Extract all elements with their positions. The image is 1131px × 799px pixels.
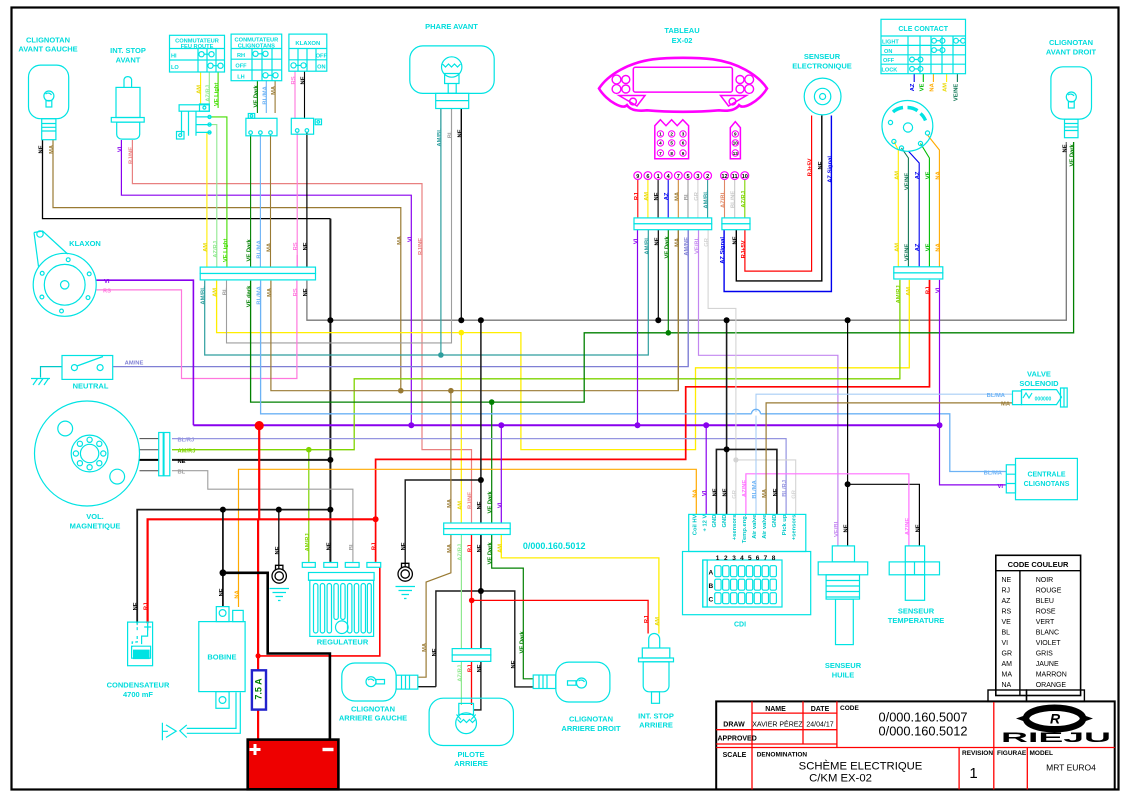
svg-text:VI: VI: [634, 238, 640, 244]
svg-text:AZ/RJ: AZ/RJ: [741, 191, 747, 208]
int stop avant: [110, 46, 146, 139]
wire neutral ground stub: [41, 367, 63, 378]
svg-text:ROUGE: ROUGE: [1036, 588, 1062, 595]
junction dots MA brown: [398, 388, 454, 394]
svg-text:NE: NE: [39, 145, 45, 153]
svg-text:RS: RS: [103, 288, 111, 294]
svg-text:CODE: CODE: [840, 705, 859, 712]
wire AZ key connector: [909, 151, 920, 266]
cle contact key connector: [882, 101, 933, 152]
wire cle table stub NA: [932, 74, 934, 82]
svg-text:AM/BL: AM/BL: [644, 236, 650, 255]
svg-text:NA: NA: [235, 589, 241, 598]
svg-text:RH: RH: [237, 53, 245, 59]
wire RJ int stop arriere: [472, 600, 648, 633]
svg-text:MA: MA: [422, 642, 428, 652]
wire VE key connector: [921, 144, 930, 267]
svg-text:AZ/NE: AZ/NE: [742, 480, 748, 498]
svg-text:RS: RS: [1002, 609, 1012, 616]
svg-text:NE: NE: [915, 524, 921, 532]
junction dot red regulateur: [256, 653, 261, 658]
svg-text:AM: AM: [644, 192, 650, 201]
wire MA clignotans table stub: [274, 81, 276, 113]
svg-text:CODE COULEUR: CODE COULEUR: [1008, 560, 1069, 569]
wire RS klaxon: [96, 281, 297, 379]
wire MA switch-bar: [270, 134, 272, 267]
wire MA brown bus y390: [271, 230, 678, 391]
wire red regulateur loop: [258, 568, 380, 656]
wire cle table stub VE/NE: [956, 74, 958, 82]
klaxon horn: [33, 231, 101, 316]
junction dot NE rear y591: [478, 588, 484, 594]
svg-text:BL/MA: BL/MA: [752, 479, 758, 498]
svg-text:BOBINE: BOBINE: [207, 653, 236, 662]
svg-text:CLIGNOTAN: CLIGNOTAN: [569, 715, 613, 724]
wire VI int stop avant: [121, 140, 411, 425]
wire BL/MA valve solenoid: [756, 394, 1013, 514]
clignotan avant droit: [1046, 38, 1097, 138]
svg-text:NAME: NAME: [765, 706, 786, 713]
wire NE thick vertical x330: [329, 219, 331, 562]
ground symbol 2: [396, 587, 416, 599]
bobine: [199, 607, 245, 709]
svg-text:0/000.160.5012: 0/000.160.5012: [879, 724, 968, 739]
wire RJ red main feed: [376, 280, 930, 562]
pilote arriere connector bar: [452, 649, 491, 662]
svg-text:4700 mF: 4700 mF: [123, 690, 153, 699]
wire NE CDI from bus: [726, 320, 728, 514]
svg-text:ARRIERE: ARRIERE: [639, 721, 673, 730]
svg-text:RJ/NE: RJ/NE: [128, 147, 134, 164]
svg-text:GND: GND: [772, 515, 778, 528]
wire GR tableau to CDI: [708, 230, 736, 514]
svg-text:8: 8: [670, 151, 673, 156]
wire NE eyelet2 branch: [405, 480, 481, 567]
wire NA key connector: [928, 135, 940, 267]
svg-text:INT. STOP: INT. STOP: [638, 712, 674, 721]
svg-text:PILOTE: PILOTE: [457, 750, 484, 759]
svg-text:KLAXON: KLAXON: [69, 239, 101, 248]
svg-text:1: 1: [659, 132, 662, 137]
phare avant: [410, 22, 494, 109]
RIEJU logo: [1001, 708, 1111, 745]
svg-text:BL: BL: [684, 192, 690, 200]
switch clignotans component: [246, 114, 277, 136]
svg-text:+sensors: +sensors: [732, 515, 738, 541]
svg-text:VE: VE: [925, 171, 931, 179]
wire VE dark clignotans table stub: [256, 81, 258, 113]
svg-text:AVANT GAUCHE: AVANT GAUCHE: [18, 45, 77, 54]
svg-text:DENOMINATION: DENOMINATION: [757, 752, 808, 759]
clignotan avant gauche: [18, 36, 77, 140]
junction dot GR: [733, 457, 738, 462]
wire red battery feed: [257, 519, 259, 670]
wire NE vol mag bus: [172, 459, 330, 461]
svg-text:1: 1: [716, 555, 720, 562]
svg-text:Air valve: Air valve: [762, 514, 768, 539]
svg-text:GR: GR: [694, 191, 700, 201]
svg-text:SENSEUR: SENSEUR: [825, 661, 862, 670]
wire AM feu route table stub: [200, 72, 202, 105]
wire NA orange bobine-CDI: [239, 469, 697, 607]
svg-text:VIOLET: VIOLET: [1036, 640, 1062, 647]
wire NE tableau-senseur: [736, 116, 822, 281]
svg-text:CLIGNOTAN: CLIGNOTAN: [26, 36, 70, 45]
svg-text:BL/MA: BL/MA: [262, 85, 268, 104]
svg-text:NE: NE: [401, 542, 407, 550]
junction dot VE dark tableau: [666, 330, 672, 336]
svg-text:CLIGNOTAN: CLIGNOTAN: [1049, 38, 1093, 47]
junction dot NE senseur temp: [845, 481, 851, 487]
table conmutateur feu route: [170, 35, 225, 72]
wire labels vertical: [39, 76, 1076, 682]
wire NE gray bus drop x657: [657, 230, 659, 320]
svg-text:KLAXON: KLAXON: [295, 41, 320, 47]
clignotan arriere gauche: [339, 663, 418, 723]
svg-text:BL/MA: BL/MA: [987, 393, 1006, 399]
wire tableau pin MA: [677, 180, 679, 218]
wire RJ/NE int stop avant: [132, 140, 471, 523]
int stop arriere: [638, 634, 674, 730]
vol mag connector: [159, 433, 170, 476]
wire cle table stub AZ: [913, 74, 915, 82]
svg-text:VE Light: VE Light: [214, 83, 220, 107]
svg-text:3: 3: [732, 555, 736, 562]
svg-text:VE: VE: [919, 83, 925, 91]
junction dot NE CDI: [724, 446, 730, 452]
CDI: [683, 514, 811, 628]
tableau pin number circles: [634, 172, 749, 180]
svg-text:NE: NE: [178, 459, 186, 465]
svg-text:AZ: AZ: [1002, 598, 1012, 605]
svg-text:AZ/RJ: AZ/RJ: [457, 665, 463, 682]
svg-text:4: 4: [659, 141, 662, 146]
wire AM/BL phare drop: [440, 109, 442, 356]
svg-text:SOLENOID: SOLENOID: [1019, 379, 1059, 388]
svg-text:CENTRALE: CENTRALE: [1027, 472, 1065, 479]
svg-text:VE Dark: VE Dark: [519, 631, 525, 654]
svg-text:VE dark: VE dark: [247, 285, 253, 307]
wire VI cle-centrale: [940, 280, 1007, 485]
svg-text:VE Dark: VE Dark: [1070, 144, 1076, 167]
svg-text:VE/BL: VE/BL: [834, 519, 840, 537]
svg-text:RJ+5V: RJ+5V: [741, 240, 747, 258]
pilote arriere: [429, 698, 513, 768]
svg-text:NE: NE: [732, 236, 738, 244]
svg-text:VI: VI: [497, 502, 503, 508]
svg-text:AM/RJ: AM/RJ: [305, 533, 311, 551]
svg-text:MA: MA: [397, 235, 403, 245]
svg-text:NE: NE: [477, 544, 483, 552]
svg-text:6: 6: [756, 555, 760, 562]
svg-text:ROSE: ROSE: [1036, 609, 1056, 616]
svg-text:AM/RJ: AM/RJ: [896, 285, 902, 303]
senseur temperature: [888, 546, 945, 625]
svg-text:NE: NE: [723, 488, 729, 496]
svg-text:BLANC: BLANC: [1036, 630, 1059, 637]
tableau connector single: [730, 122, 740, 159]
senseur electronique: [792, 52, 852, 115]
wire NE eyelet1: [278, 510, 280, 569]
connector bar middle: [444, 523, 511, 535]
svg-text:AZ: AZ: [664, 192, 670, 200]
table klaxon: [289, 34, 328, 71]
svg-text:BL: BL: [448, 130, 454, 138]
svg-text:GND: GND: [722, 515, 728, 528]
svg-text:RJ+5V: RJ+5V: [808, 158, 814, 176]
svg-text:NE: NE: [773, 488, 779, 496]
svg-text:NEUTRAL: NEUTRAL: [73, 382, 109, 391]
wire AM drop to big bar: [460, 333, 462, 523]
svg-text:CLIGNOTANS: CLIGNOTANS: [1024, 481, 1070, 488]
svg-text:NE: NE: [844, 524, 850, 532]
wire NE switch-bar: [306, 132, 308, 267]
svg-text:RS: RS: [293, 242, 299, 250]
neutral switch: [62, 356, 113, 391]
svg-text:AM: AM: [894, 243, 900, 252]
svg-text:3: 3: [696, 174, 699, 180]
svg-text:SCHÈME ELECTRIQUE: SCHÈME ELECTRIQUE: [799, 760, 923, 773]
svg-text:MA: MA: [762, 488, 768, 498]
wire tableau pin AZ/RJ: [744, 180, 746, 218]
svg-text:AM: AM: [197, 85, 203, 94]
svg-text:VE Dark: VE Dark: [488, 491, 494, 514]
svg-text:JAUNE: JAUNE: [1036, 661, 1059, 668]
svg-text:+sensors: +sensors: [792, 515, 798, 541]
svg-text:+ 12 V: + 12 V: [702, 514, 708, 531]
svg-text:BLEU: BLEU: [1036, 598, 1054, 605]
wire VI pilote drop: [500, 425, 502, 523]
svg-text:AZ/NE: AZ/NE: [905, 518, 911, 536]
wire VE Light feu route table stub: [217, 72, 219, 108]
svg-text:NE: NE: [654, 237, 660, 245]
svg-text:CDI: CDI: [734, 622, 746, 629]
clignotan arriere droit: [533, 662, 621, 733]
wire AM/RJ regulateur drop: [308, 450, 310, 562]
tableau connector 3x3: [655, 120, 689, 159]
svg-text:12: 12: [721, 174, 727, 180]
svg-text:VE: VE: [925, 243, 931, 251]
wire NE CDI U loop: [716, 449, 777, 514]
svg-text:4: 4: [740, 555, 744, 562]
svg-text:GRIS: GRIS: [1036, 651, 1053, 658]
svg-text:AZ Signal: AZ Signal: [720, 237, 726, 264]
svg-text:GR: GR: [732, 489, 738, 499]
svg-text:MA: MA: [1002, 672, 1013, 679]
wire NE rear clignotans run: [436, 591, 533, 687]
svg-text:NA: NA: [935, 170, 941, 179]
wire VE light switch to bar: [211, 117, 227, 267]
tableau pin numbers: [636, 174, 748, 180]
svg-text:9: 9: [734, 132, 737, 137]
svg-text:Air valve: Air valve: [752, 514, 758, 539]
svg-text:7: 7: [677, 174, 680, 180]
svg-text:13: 13: [733, 151, 739, 156]
wire RS switch-bar: [296, 132, 298, 267]
wire GR branch +sensors: [736, 460, 796, 515]
svg-text:VE Dark: VE Dark: [488, 542, 494, 565]
svg-text:VI: VI: [1002, 640, 1009, 647]
svg-text:NE: NE: [303, 288, 309, 296]
svg-text:2: 2: [706, 174, 709, 180]
junction dot AM yellow: [459, 330, 465, 336]
wire cle table stub VE: [922, 74, 924, 82]
svg-text:NE: NE: [712, 488, 718, 496]
svg-text:7: 7: [659, 151, 662, 156]
svg-text:VE Dark: VE Dark: [664, 236, 670, 259]
junction dot VE dark lower: [489, 399, 495, 405]
wire NE pilote mid: [480, 535, 482, 592]
svg-text:RJ: RJ: [1002, 588, 1011, 595]
svg-text:MA: MA: [447, 543, 453, 553]
svg-text:AVANT: AVANT: [116, 56, 141, 65]
svg-text:AZ: AZ: [910, 83, 916, 91]
junction dot RJ rear: [469, 598, 475, 604]
svg-text:LOCK: LOCK: [882, 68, 898, 74]
svg-text:AM/NE: AM/NE: [684, 237, 690, 256]
connector bar left: [200, 267, 315, 280]
svg-text:MA: MA: [49, 144, 55, 154]
wire AM key connector: [894, 142, 898, 267]
svg-text:NA: NA: [935, 242, 941, 251]
valve solenoid: [1013, 370, 1068, 408]
code couleur table: [996, 555, 1081, 695]
wire tableau pin AM/BL: [707, 180, 709, 218]
svg-text:PHARE AVANT: PHARE AVANT: [425, 22, 478, 31]
svg-text:Coil HV: Coil HV: [693, 514, 699, 535]
wire VI tableau drop: [637, 230, 639, 425]
CDI pin grid cells: [715, 566, 777, 604]
svg-text:VE Dark: VE Dark: [247, 239, 253, 262]
wire NE senseur temperature: [848, 484, 920, 546]
svg-text:BL/MA: BL/MA: [984, 470, 1003, 476]
svg-text:0/000.160.5007: 0/000.160.5007: [879, 710, 968, 725]
svg-text:GR: GR: [792, 489, 798, 499]
svg-text:ARRIERE: ARRIERE: [454, 759, 488, 768]
svg-text:7: 7: [764, 555, 768, 562]
svg-text:5: 5: [670, 141, 673, 146]
wire NE clignotan arr gauche stub: [418, 686, 436, 688]
svg-text:DRAW: DRAW: [723, 722, 745, 729]
wire RJ+5V: [745, 116, 812, 272]
wire VE dark tableau drop: [667, 230, 669, 333]
wire tableau pin NE: [657, 180, 659, 218]
svg-text:VE/NE: VE/NE: [904, 173, 910, 191]
wire NE klaxon table stub: [304, 71, 306, 119]
svg-text:AM/BL: AM/BL: [201, 286, 207, 305]
wire VE dark bus: [251, 142, 1074, 402]
svg-text:ORANGE: ORANGE: [1036, 682, 1067, 689]
wire NE rear lights vertical: [480, 320, 482, 648]
svg-text:2: 2: [724, 555, 728, 562]
wire red start vertical: [258, 426, 260, 520]
svg-text:10: 10: [742, 174, 748, 180]
CDI pin labels: [693, 514, 798, 543]
svg-text:RS: RS: [291, 76, 297, 84]
svg-text:RJ: RJ: [372, 543, 378, 550]
wire AM/RJ green bus: [172, 280, 900, 450]
svg-text:NE: NE: [275, 546, 281, 554]
svg-text:RJ: RJ: [468, 545, 474, 552]
svg-text:9: 9: [636, 174, 639, 180]
svg-text:SENSEUR: SENSEUR: [804, 52, 841, 61]
table cle contact: [881, 19, 966, 73]
wire tableau pin RJ: [637, 180, 639, 218]
svg-text:CONDENSATEUR: CONDENSATEUR: [107, 681, 170, 690]
svg-text:ON: ON: [884, 49, 892, 55]
svg-text:24/04/17: 24/04/17: [806, 722, 833, 729]
svg-text:VE Dark: VE Dark: [253, 85, 259, 108]
wire MA clignotan arr gauche: [418, 391, 451, 678]
svg-text:SENSEUR: SENSEUR: [898, 607, 935, 616]
svg-text:Pick up: Pick up: [782, 514, 788, 535]
svg-text:C: C: [709, 597, 714, 604]
svg-text:GR: GR: [704, 237, 710, 247]
condensateur: [107, 622, 170, 699]
svg-text:NE: NE: [477, 664, 483, 672]
svg-text:AM: AM: [655, 617, 661, 626]
wire BL/RJ periwinkle: [172, 439, 786, 515]
svg-text:CLE CONTACT: CLE CONTACT: [898, 26, 948, 33]
svg-text:NE: NE: [477, 501, 483, 509]
wire RS to bar: [296, 255, 298, 267]
svg-text:RJ: RJ: [468, 665, 474, 672]
cle contact connector bar: [894, 267, 943, 279]
junction dot NE x330 bus: [327, 457, 333, 463]
svg-text:R: R: [1050, 711, 1061, 727]
svg-text:AM/NE: AM/NE: [125, 360, 144, 366]
svg-text:NE: NE: [301, 76, 307, 84]
svg-text:RJ: RJ: [644, 616, 650, 623]
svg-text:BL/RJ: BL/RJ: [178, 437, 195, 443]
wire AM/NE neutral to tableau: [113, 230, 689, 367]
wire NE clignotan avant gauche: [43, 140, 331, 219]
svg-text:ARRIERE GAUCHE: ARRIERE GAUCHE: [339, 714, 407, 723]
svg-text:VE/NE: VE/NE: [904, 244, 910, 262]
svg-text:BL/NE: BL/NE: [731, 191, 737, 209]
wire AM/BL teal bus: [205, 230, 649, 355]
svg-text:AZ/RJ: AZ/RJ: [213, 241, 219, 258]
svg-text:MARRON: MARRON: [1036, 672, 1067, 679]
svg-text:VE/NE: VE/NE: [953, 84, 959, 102]
svg-text:NE: NE: [133, 602, 139, 610]
wire red y519 condensateur-fuse-dot: [148, 519, 376, 623]
wire tableau pin AZ: [667, 180, 669, 218]
junction dot AM/RJ: [306, 447, 312, 453]
svg-text:LIGHT: LIGHT: [882, 39, 899, 45]
svg-text:VI: VI: [117, 146, 123, 152]
svg-text:3: 3: [682, 132, 685, 137]
wire AZ/RJ switch to bar: [211, 125, 217, 268]
wire MA valve solenoid: [766, 403, 1012, 515]
junction dot red start: [255, 421, 264, 430]
svg-text:CLIGNOTAN: CLIGNOTAN: [351, 705, 395, 714]
svg-text:1: 1: [969, 765, 977, 782]
wire tableau pin BL/NE: [734, 180, 736, 218]
tableau connector bar 2: [722, 218, 750, 230]
svg-text:XAVIER PÉREZ: XAVIER PÉREZ: [752, 720, 803, 729]
svg-text:000000: 000000: [1035, 397, 1052, 403]
svg-text:ON: ON: [317, 65, 325, 71]
svg-text:INT. STOP: INT. STOP: [110, 46, 146, 55]
svg-text:AM: AM: [894, 171, 900, 180]
svg-text:AZ/RJ: AZ/RJ: [457, 544, 463, 561]
svg-text:MA: MA: [267, 242, 273, 252]
battery: [248, 740, 339, 790]
svg-text:TABLEAU: TABLEAU: [664, 26, 699, 35]
svg-text:NE: NE: [457, 129, 463, 137]
svg-text:AM: AM: [943, 83, 949, 92]
